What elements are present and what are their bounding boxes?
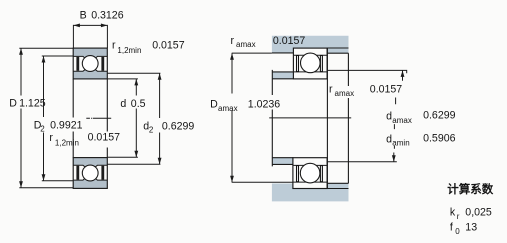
dimension Damax: extension line top [232, 52, 272, 54]
right figure: shaft shoulder bottom block [272, 158, 293, 165]
dimension d2: dimension line [159, 73, 161, 164]
right bearing top section: right seal [320, 56, 322, 72]
svg-text:13: 13 [465, 222, 477, 234]
left bearing top section: outline [73, 48, 107, 79]
svg-text:f: f [450, 222, 453, 234]
dimension d: top arrow [134, 79, 138, 86]
dimension d: bottom arrow [134, 151, 138, 158]
left bearing bottom section: right seal [101, 166, 104, 180]
right bearing bottom section: right seal [320, 166, 322, 182]
svg-text:amax: amax [218, 104, 238, 113]
right figure: housing side face line [347, 53, 349, 183]
left bearing top section: inner ring fill [73, 69, 107, 79]
svg-text:0.5906: 0.5906 [423, 133, 456, 145]
svg-text:0.0157: 0.0157 [152, 39, 185, 51]
da chain: top arrow [401, 70, 405, 77]
svg-text:1,2min: 1,2min [55, 138, 79, 147]
svg-text:1.0236: 1.0236 [248, 99, 281, 111]
svg-text:0.0157: 0.0157 [88, 132, 121, 144]
dimension D2: top arrow [42, 56, 46, 63]
right figure: centerline [269, 117, 351, 119]
dimension B: right arrow [101, 24, 108, 28]
left bearing top section: left seal [76, 57, 79, 71]
left bearing top section: ball [82, 56, 98, 72]
svg-text:2: 2 [40, 124, 45, 133]
dimension B: left arrow [73, 24, 80, 28]
svg-text:r: r [112, 39, 116, 51]
da chain: extension line top with hook [327, 70, 406, 73]
right bearing top section: left seal [297, 56, 299, 72]
dimension D: top arrow [19, 48, 23, 55]
svg-text:d: d [386, 133, 392, 145]
svg-text:0.9921: 0.9921 [50, 120, 83, 132]
svg-text:0.0157: 0.0157 [370, 84, 403, 96]
da chain: extension line bottom [327, 161, 396, 163]
left bearing top section: right seal [101, 57, 104, 71]
left bearing bottom section: outer ring fill [73, 177, 107, 188]
svg-text:D: D [9, 97, 17, 109]
svg-text:r: r [329, 84, 333, 96]
right figure: housing bottom block [272, 183, 349, 201]
dimension D: extension lines [19, 48, 73, 188]
svg-text:r: r [457, 212, 460, 221]
svg-text:1.125: 1.125 [19, 97, 46, 109]
svg-text:d: d [120, 98, 126, 110]
right figure: bearing right face line [326, 48, 328, 188]
right bearing bottom section: raceway lines [294, 165, 327, 182]
svg-text:0,025: 0,025 [465, 206, 492, 218]
left bearing bottom section: outline [73, 158, 107, 189]
da chain: bottom arrow [392, 155, 396, 162]
dimension d2: extension lines [107, 73, 160, 164]
dimension d2: top arrow [158, 73, 162, 80]
svg-text:amax: amax [335, 89, 355, 98]
svg-text:r: r [231, 35, 235, 47]
right figure: housing top block [272, 36, 349, 54]
svg-text:amin: amin [392, 139, 409, 148]
da chain: dimension line segments [394, 70, 403, 161]
right figure: housing top block shoulder borders [272, 48, 349, 53]
right bearing bottom section: ball [300, 163, 320, 183]
dimension d: extension lines [107, 79, 138, 157]
svg-text:计算系数: 计算系数 [447, 182, 493, 196]
left bearing bottom section: ball [82, 165, 98, 181]
dimension B: extension lines [73, 25, 107, 48]
dimension d2: bottom arrow [158, 158, 162, 165]
svg-text:D: D [210, 99, 218, 111]
svg-text:0.6299: 0.6299 [162, 120, 195, 132]
svg-text:0.0157: 0.0157 [273, 35, 306, 47]
dimension D2: dimension line [43, 56, 45, 181]
dimension D: bottom arrow [19, 181, 23, 188]
dimension Damax: bottom arrow [230, 176, 234, 183]
right figure: shaft shoulder face line [271, 70, 273, 166]
svg-text:2: 2 [149, 125, 154, 134]
left bearing bottom section: left seal [76, 166, 79, 180]
left bearing top section: outer ring fill [73, 48, 107, 59]
svg-text:0.6299: 0.6299 [423, 110, 456, 122]
dimension D2: bottom arrow [42, 174, 46, 181]
svg-text:1,2min: 1,2min [117, 46, 141, 55]
svg-text:k: k [450, 207, 456, 219]
svg-text:0.3126: 0.3126 [91, 9, 124, 21]
svg-text:amax: amax [236, 40, 256, 49]
svg-text:d: d [386, 111, 392, 123]
dimension Damax: dimension line [231, 53, 233, 182]
right bearing top section: ball [301, 53, 321, 73]
right figure: housing bottom block shoulder border [327, 183, 348, 188]
svg-text:0: 0 [455, 227, 460, 236]
svg-text:amax: amax [392, 116, 412, 125]
svg-text:r: r [49, 132, 53, 144]
dimension D: dimension line [20, 48, 22, 187]
dimension Damax: extension line bottom [232, 181, 294, 183]
left bearing side face lines through bore gap [72, 79, 74, 158]
dimension D2: extension lines [42, 56, 73, 181]
right bearing top section: outline [293, 48, 327, 79]
svg-text:0.5: 0.5 [131, 98, 146, 110]
dimension Damax: top arrow [230, 53, 234, 60]
right figure: shaft shoulder top block [272, 72, 293, 79]
left figure centerline [86, 117, 111, 119]
right bearing bottom section: outline [293, 158, 327, 189]
right bearing top section: raceway lines [294, 55, 327, 72]
right bearing bottom section: left seal [297, 166, 299, 182]
dimension B: dimension line [73, 24, 107, 26]
dimension d: dimension line [135, 79, 137, 157]
svg-text:B: B [80, 9, 87, 21]
left bearing bottom section: inner ring fill [73, 158, 107, 168]
